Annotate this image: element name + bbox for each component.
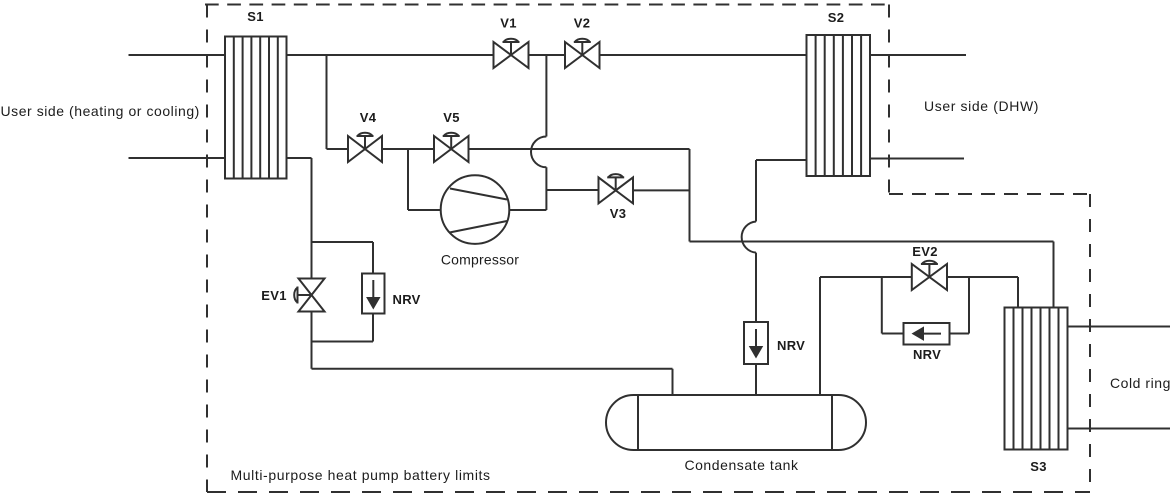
wire S3 right top pipe (cold ring): [1068, 326, 1170, 328]
wire compressor suction: tee between V4 and V5 down and right: [408, 149, 441, 210]
wire user-side left top pipe: [129, 54, 226, 56]
wire V5 line continuing right to corner: [469, 148, 690, 150]
svg-text:Condensate tank: Condensate tank: [684, 457, 799, 473]
heat exchanger S2: [807, 35, 871, 176]
expansion valve EV1: [294, 279, 324, 312]
wire EV2 line right segment down to S3: [947, 277, 1018, 308]
svg-text:NRV: NRV: [913, 347, 941, 362]
valve V3: [599, 174, 634, 203]
wire S2 bottom-left down leg with hop over long run: [742, 160, 807, 322]
expansion valve EV2: [912, 261, 947, 290]
wire S1 bottom outlet to EV1 leg: [287, 158, 312, 279]
svg-text:NRV: NRV: [393, 292, 421, 307]
check valve NRV (right, left flow): [904, 323, 950, 345]
wire S2 top right pipe: [870, 54, 966, 56]
svg-text:User side (DHW): User side (DHW): [924, 98, 1039, 114]
wire EV1 leg down and right to tank: [312, 312, 673, 396]
svg-text:Compressor: Compressor: [441, 252, 519, 268]
wire tank to EV2 line riser: [819, 277, 821, 395]
wire V4 to V5: [382, 148, 434, 150]
svg-text:V1: V1: [500, 16, 517, 31]
wire EV2 bypass left leg: [882, 277, 904, 334]
wire EV2 line left segment: [820, 276, 912, 278]
wire compressor discharge to riser: [509, 209, 546, 211]
heat exchanger S1: [225, 37, 287, 179]
wire V2 to S2: [600, 54, 807, 56]
wire user-side left bottom pipe: [129, 157, 226, 159]
svg-text:S2: S2: [828, 10, 845, 25]
wire drop leg down and long run right to S3: [690, 149, 1054, 308]
wire EV1 bypass branch top: [312, 242, 374, 274]
wire EV2 bypass right leg: [950, 277, 970, 334]
valve V4: [348, 133, 382, 162]
wire discharge riser with hop over V5 line: [531, 56, 546, 210]
compressor U1: [441, 175, 510, 244]
svg-text:V3: V3: [610, 206, 627, 221]
wire EV1 bypass branch bottom: [312, 314, 374, 342]
wire S3 right bottom pipe (cold ring): [1068, 428, 1170, 430]
check valve NRV (middle, down flow): [744, 322, 768, 364]
svg-text:S1: S1: [247, 9, 264, 24]
wire branch to V3: [546, 189, 598, 191]
wire V3 to drop leg: [633, 189, 690, 191]
svg-text:V5: V5: [443, 110, 460, 125]
condensate tank: [606, 395, 866, 450]
svg-text:Cold ring: Cold ring: [1110, 375, 1170, 391]
svg-text:V4: V4: [360, 110, 377, 125]
svg-text:S3: S3: [1030, 459, 1047, 474]
svg-text:User side (heating or cooling): User side (heating or cooling): [1, 103, 200, 119]
valve V5: [434, 133, 469, 162]
svg-text:EV2: EV2: [912, 244, 937, 259]
valve V2: [565, 39, 600, 68]
wire S2 bottom right pipe: [870, 158, 964, 160]
check valve NRV (left, down flow): [362, 274, 385, 314]
node tap from top pipe down to V4 branch: [327, 55, 349, 149]
wire S1 top outlet to V1: [287, 54, 494, 56]
heat exchanger S3: [1005, 308, 1068, 450]
valve V1: [494, 39, 529, 68]
svg-text:NRV: NRV: [777, 338, 805, 353]
svg-text:EV1: EV1: [261, 288, 286, 303]
wire NRV to condensate tank: [755, 364, 757, 395]
svg-text:V2: V2: [574, 16, 591, 31]
wire V1 to V2: [529, 54, 566, 56]
svg-text:Multi-purpose heat pump batter: Multi-purpose heat pump battery limits: [231, 467, 491, 483]
battery limits dashed border: [205, 5, 1090, 493]
